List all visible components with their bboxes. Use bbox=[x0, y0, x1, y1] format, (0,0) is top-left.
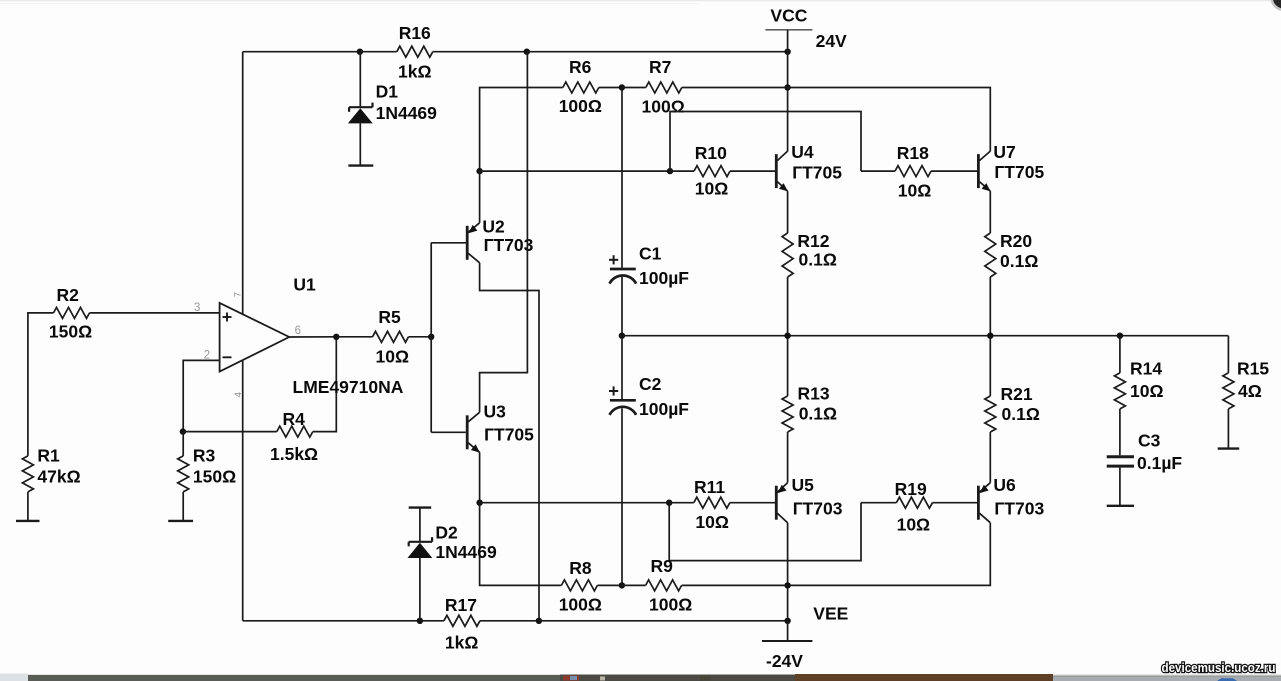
photo strip bottom bbox=[0, 675, 1281, 681]
op-amp plus input mark bbox=[223, 316, 232, 318]
wire junction to R11 bbox=[669, 502, 694, 504]
svg-text:24V: 24V bbox=[816, 31, 847, 51]
corner circle button bbox=[1272, 0, 1281, 10]
svg-text:R16: R16 bbox=[399, 23, 431, 43]
node R3/R4 junction bbox=[180, 428, 186, 434]
svg-text:R4: R4 bbox=[283, 409, 306, 429]
resistor R20 bbox=[985, 233, 996, 277]
resistor R16 bbox=[397, 46, 433, 57]
wire input corner to R2 bbox=[28, 313, 54, 456]
svg-text:R9: R9 bbox=[651, 556, 674, 576]
svg-text:ГТ703: ГТ703 bbox=[994, 499, 1044, 519]
wire U4 emitter to R12 bbox=[787, 191, 789, 233]
resistor R17 bbox=[444, 615, 480, 626]
svg-text:2: 2 bbox=[204, 350, 210, 362]
wire C1 top stem bbox=[621, 88, 623, 268]
svg-text:1N4469: 1N4469 bbox=[435, 542, 497, 562]
wire R21 to U6 emitter bbox=[989, 432, 991, 483]
wire U3 emitter down to rail bbox=[479, 452, 481, 502]
svg-text:C3: C3 bbox=[1138, 430, 1161, 450]
capacitor C1 plus mark bbox=[609, 259, 618, 261]
svg-text:6: 6 bbox=[295, 325, 301, 337]
svg-text:R11: R11 bbox=[694, 477, 725, 497]
resistor R19 bbox=[896, 497, 932, 508]
wire VCC down to U4 collector bbox=[787, 30, 789, 152]
svg-text:ГТ705: ГТ705 bbox=[792, 162, 842, 182]
capacitor C2 plus mark bbox=[609, 390, 618, 392]
svg-text:R10: R10 bbox=[695, 143, 727, 163]
node U2 emitter rail left junction bbox=[476, 168, 482, 174]
wire R4 up to output node bbox=[313, 337, 337, 432]
wire R3 to ground bbox=[182, 492, 184, 521]
svg-text:100Ω: 100Ω bbox=[559, 594, 602, 614]
node R8R9 row / VEE junction bbox=[784, 582, 790, 588]
svg-text:R12: R12 bbox=[797, 231, 829, 251]
svg-text:U7: U7 bbox=[993, 142, 1015, 162]
svg-text:R1: R1 bbox=[37, 446, 60, 466]
power VEE terminal bar bbox=[762, 640, 812, 642]
wire R1 to ground bbox=[27, 492, 29, 521]
wire R4 row from junction bbox=[183, 431, 277, 433]
wire R6 to C1 tap bbox=[599, 87, 622, 89]
wire VCC rail to U7 collector bbox=[788, 88, 991, 152]
node U3-collector tap junction bbox=[524, 49, 530, 55]
capacitor C3 bbox=[1107, 455, 1134, 458]
svg-text:R20: R20 bbox=[1000, 231, 1032, 251]
node D1 tap junction bbox=[357, 49, 363, 55]
transistor U5 bbox=[775, 486, 778, 520]
resistor R9 bbox=[646, 580, 682, 591]
wire U2 collector to bottom rail bbox=[480, 263, 539, 621]
wire R7 to VCC column bbox=[682, 87, 788, 89]
svg-text:-24V: -24V bbox=[766, 651, 803, 671]
diode D2 1N4469 zener bbox=[409, 541, 432, 543]
wire R6 rail left drop bbox=[480, 88, 563, 172]
wire top rail pin7 to D1 tap bbox=[243, 51, 360, 53]
power VCC terminal bar bbox=[765, 29, 812, 31]
svg-text:4Ω: 4Ω bbox=[1238, 381, 1262, 401]
svg-text:1kΩ: 1kΩ bbox=[445, 633, 479, 653]
wire C2 top stem bbox=[621, 336, 623, 399]
wire C2 bottom stem bbox=[621, 408, 623, 585]
svg-text:0.1Ω: 0.1Ω bbox=[1002, 404, 1040, 424]
svg-text:D2: D2 bbox=[435, 523, 458, 543]
wire R15 to ground bbox=[1227, 409, 1229, 449]
wire U3 emitter to R8 row bbox=[480, 503, 562, 586]
svg-text:10Ω: 10Ω bbox=[897, 515, 931, 535]
wire to U2 base bbox=[431, 242, 466, 244]
resistor R4 bbox=[277, 426, 313, 437]
wire pin6 output bbox=[289, 336, 336, 338]
svg-text:10Ω: 10Ω bbox=[695, 179, 729, 199]
wire rail end down to R15 bbox=[1227, 336, 1229, 373]
ground (R3) bbox=[168, 520, 193, 522]
wire R16 to U3-collector tap bbox=[433, 51, 527, 53]
capacitor C2 bbox=[610, 399, 636, 402]
svg-text:R19: R19 bbox=[895, 479, 927, 499]
svg-text:100Ω: 100Ω bbox=[559, 96, 602, 116]
svg-text:10Ω: 10Ω bbox=[1130, 381, 1164, 401]
node output rail left end (C1/C2 tap) bbox=[619, 333, 625, 339]
svg-text:150Ω: 150Ω bbox=[49, 321, 92, 341]
wire D2 anode to bottom rail bbox=[419, 558, 421, 621]
svg-text:0.1µF: 0.1µF bbox=[1137, 453, 1182, 473]
resistor R7 bbox=[646, 82, 682, 93]
wire drive jog up bbox=[670, 112, 861, 172]
svg-text:R6: R6 bbox=[569, 57, 592, 77]
resistor R11 bbox=[694, 497, 730, 508]
svg-text:R5: R5 bbox=[378, 307, 401, 327]
node U2-collector tap (bottom rail) bbox=[536, 618, 542, 624]
svg-text:100µF: 100µF bbox=[639, 399, 689, 419]
wire driver base column bbox=[430, 243, 432, 432]
svg-text:ГТ703: ГТ703 bbox=[793, 499, 843, 519]
wire output node to R5 bbox=[336, 336, 372, 338]
svg-text:R13: R13 bbox=[798, 384, 830, 404]
wire output rail bbox=[622, 335, 1229, 337]
svg-text:ГТ705: ГТ705 bbox=[484, 425, 534, 445]
wire drive jog down bbox=[669, 503, 861, 561]
wire U2 emitter up to rail bbox=[479, 171, 481, 223]
svg-text:10Ω: 10Ω bbox=[898, 181, 932, 201]
wire VEE column bbox=[787, 621, 789, 641]
resistor R10 bbox=[694, 166, 730, 177]
svg-text:ГТ703: ГТ703 bbox=[484, 235, 534, 255]
wire R2 to op-amp pin3 bbox=[90, 312, 220, 314]
node R10/R18 drive junction bbox=[667, 168, 673, 174]
wire R17 to U2-collector tap bbox=[480, 620, 539, 622]
resistor R8 bbox=[561, 580, 597, 591]
wire R5 to driver bases bbox=[409, 336, 432, 338]
terminal bar above D2 bbox=[409, 506, 432, 508]
wire R9 to VEE column bbox=[682, 584, 788, 586]
svg-text:7: 7 bbox=[233, 292, 244, 297]
node top rail / VCC junction bbox=[784, 49, 790, 55]
wire op-amp pin4 vertical bbox=[242, 360, 244, 621]
svg-text:R18: R18 bbox=[897, 143, 929, 163]
wire C2 tap to R9 bbox=[622, 584, 646, 586]
wire C1 tap to R7 bbox=[622, 87, 646, 89]
wire U3 collector to top rail bbox=[480, 52, 528, 413]
svg-text:10Ω: 10Ω bbox=[376, 346, 410, 366]
wire C1 bottom stem bbox=[621, 277, 623, 336]
node driver base junction bbox=[428, 334, 434, 340]
wire U2 emitter rail bbox=[480, 170, 670, 172]
node output feedback junction bbox=[333, 334, 339, 340]
svg-text:R21: R21 bbox=[1001, 384, 1033, 404]
svg-text:U1: U1 bbox=[293, 275, 316, 295]
svg-text:150Ω: 150Ω bbox=[193, 467, 236, 487]
svg-text:U4: U4 bbox=[791, 142, 814, 162]
wire R8 to C2 tap bbox=[597, 584, 622, 586]
op-amp minus input mark bbox=[223, 356, 232, 358]
wire R18 from jog bbox=[861, 170, 895, 172]
wire U6 collector down to R8R9 row bbox=[788, 523, 991, 586]
wire C3 to ground bbox=[1119, 468, 1121, 506]
svg-text:VEE: VEE bbox=[813, 604, 848, 624]
resistor R15 bbox=[1223, 373, 1234, 409]
svg-text:47kΩ: 47kΩ bbox=[37, 467, 80, 487]
wire pin2 to R3 column bbox=[183, 360, 219, 431]
ground (R1) bbox=[16, 520, 40, 522]
svg-text:U3: U3 bbox=[484, 402, 507, 422]
node bottom rail / VEE junction bbox=[784, 618, 790, 624]
svg-text:10Ω: 10Ω bbox=[695, 512, 729, 532]
resistor R6 bbox=[563, 82, 599, 93]
resistor R21 bbox=[985, 396, 996, 432]
wire D1 anode to terminal bbox=[359, 123, 361, 165]
svg-text:U6: U6 bbox=[993, 475, 1016, 495]
diode D1 1N4469 zener bbox=[349, 106, 372, 108]
svg-text:100µF: 100µF bbox=[639, 268, 689, 288]
top edge line bbox=[0, 0, 1281, 1]
svg-text:1kΩ: 1kΩ bbox=[398, 62, 432, 82]
ground (C3) bbox=[1107, 505, 1134, 507]
svg-text:100Ω: 100Ω bbox=[649, 594, 692, 614]
wire tap to VCC column bbox=[527, 51, 788, 53]
svg-text:100Ω: 100Ω bbox=[642, 97, 685, 117]
op-amp U1 triangle bbox=[220, 303, 290, 372]
svg-text:1N4469: 1N4469 bbox=[376, 103, 438, 123]
wire bottom rail pin4 to D2 bbox=[243, 620, 420, 622]
node R11/R19 drive junction bbox=[666, 500, 672, 506]
svg-text:devicemusic.ucoz.ru: devicemusic.ucoz.ru bbox=[1162, 660, 1276, 675]
node output rail / R12R13 junction bbox=[784, 333, 790, 339]
svg-text:VCC: VCC bbox=[770, 5, 807, 25]
resistor R1 bbox=[22, 456, 33, 492]
wire junction to R3 bbox=[182, 432, 184, 456]
svg-text:0.1Ω: 0.1Ω bbox=[799, 250, 837, 270]
transistor U6 bbox=[977, 486, 980, 520]
transistor U4 bbox=[775, 154, 778, 188]
transistor U2 bbox=[466, 226, 469, 260]
wire U7 emitter to R20 bbox=[989, 191, 991, 233]
node C2 bottom junction bbox=[619, 582, 625, 588]
node U3 emitter rail junction bbox=[476, 500, 482, 506]
wire D1 tap to R16 bbox=[360, 51, 397, 53]
wire output rail to R13 bbox=[787, 336, 789, 396]
svg-text:D1: D1 bbox=[376, 82, 399, 102]
svg-text:0.1Ω: 0.1Ω bbox=[799, 404, 837, 424]
terminal bar below D1 bbox=[348, 164, 373, 166]
wire junction to R10 bbox=[670, 170, 694, 172]
wire R11 to U5 base bbox=[730, 502, 775, 504]
diode D2 wire from terminal bbox=[419, 508, 421, 542]
node output rail / R20R21 junction bbox=[987, 333, 993, 339]
wire R14 stem bbox=[1119, 336, 1121, 373]
svg-text:0.1Ω: 0.1Ω bbox=[1000, 251, 1038, 271]
svg-text:R14: R14 bbox=[1130, 359, 1162, 379]
wire R10 to U4 base bbox=[730, 170, 775, 172]
transistor U3 bbox=[466, 415, 469, 449]
diode D1 wire from rail bbox=[359, 52, 361, 107]
wire R14 to C3 bbox=[1119, 409, 1121, 455]
svg-text:R7: R7 bbox=[649, 57, 671, 77]
wire R20 to output rail bbox=[989, 277, 991, 336]
resistor R14 bbox=[1114, 373, 1125, 409]
svg-text:C1: C1 bbox=[639, 243, 662, 263]
svg-text:U2: U2 bbox=[482, 216, 505, 236]
svg-text:R17: R17 bbox=[445, 595, 477, 615]
wire R18 to U7 base bbox=[931, 170, 977, 172]
wire output rail to R21 bbox=[989, 336, 991, 396]
svg-text:C2: C2 bbox=[639, 374, 662, 394]
wire to U3 base bbox=[431, 431, 466, 433]
node D2 junction bbox=[417, 618, 423, 624]
svg-text:R15: R15 bbox=[1237, 359, 1269, 379]
svg-text:R8: R8 bbox=[569, 558, 592, 578]
resistor R3 bbox=[178, 456, 189, 492]
wire R19 to U6 base bbox=[932, 502, 977, 504]
wire tap to VEE column bbox=[539, 620, 788, 622]
resistor R5 bbox=[373, 331, 409, 342]
ground (R15) bbox=[1218, 447, 1240, 449]
svg-text:1.5kΩ: 1.5kΩ bbox=[270, 444, 318, 464]
wire op-amp pin7 vertical bbox=[242, 52, 244, 315]
resistor R13 bbox=[782, 396, 793, 432]
resistor R12 bbox=[782, 233, 793, 277]
svg-text:R2: R2 bbox=[57, 285, 80, 305]
capacitor C1 bbox=[610, 268, 636, 271]
wire D2 to R17 bbox=[420, 620, 444, 622]
svg-text:U5: U5 bbox=[792, 475, 815, 495]
wire U3 emitter rail bbox=[480, 502, 670, 504]
svg-text:3: 3 bbox=[194, 302, 200, 314]
node C1 top junction bbox=[619, 84, 625, 90]
svg-text:ГТ705: ГТ705 bbox=[994, 162, 1044, 182]
node output rail / R14 junction bbox=[1117, 333, 1123, 339]
wire U5 collector down bbox=[787, 523, 789, 621]
svg-text:LME49710NA: LME49710NA bbox=[293, 377, 404, 397]
resistor R18 bbox=[895, 166, 931, 177]
svg-text:R3: R3 bbox=[193, 446, 216, 466]
wire R12 to output rail bbox=[787, 277, 789, 336]
wire R19 from jog bbox=[861, 502, 896, 504]
wire R13 to U5 emitter bbox=[787, 432, 789, 483]
node VCC / R6R7 rail junction bbox=[784, 84, 790, 90]
resistor R2 bbox=[54, 307, 90, 318]
transistor U7 bbox=[977, 154, 980, 188]
